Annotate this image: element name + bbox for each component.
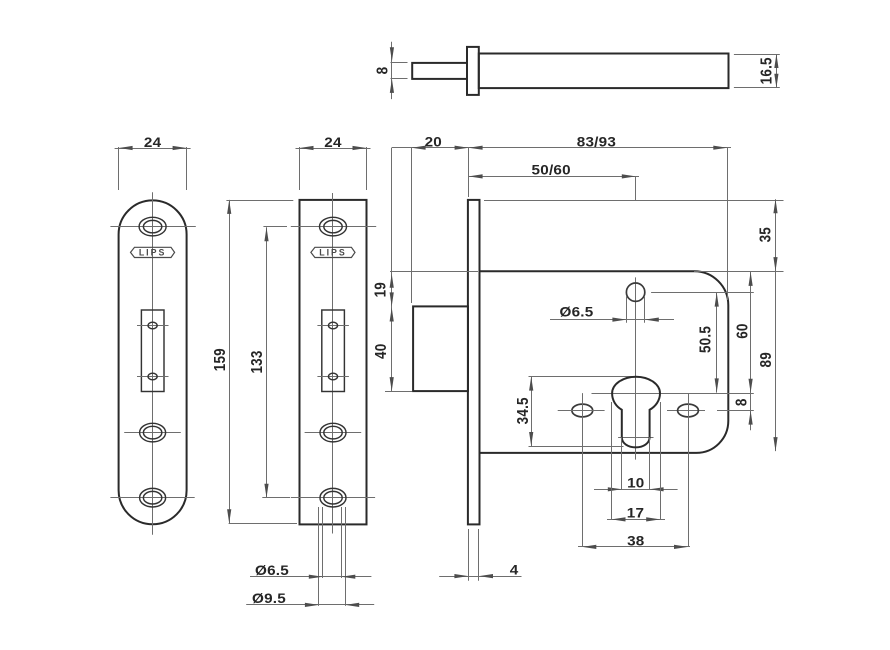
svg-text:8: 8 bbox=[734, 398, 751, 406]
svg-text:50.5: 50.5 bbox=[698, 326, 715, 353]
svg-text:10: 10 bbox=[627, 476, 644, 491]
svg-text:50/60: 50/60 bbox=[532, 163, 571, 178]
svg-text:35: 35 bbox=[758, 227, 775, 242]
svg-text:19: 19 bbox=[373, 282, 390, 297]
svg-text:24: 24 bbox=[144, 136, 161, 151]
svg-text:159: 159 bbox=[212, 348, 229, 371]
svg-text:40: 40 bbox=[373, 344, 390, 359]
svg-text:Ø6.5: Ø6.5 bbox=[255, 564, 289, 579]
svg-text:8: 8 bbox=[375, 67, 392, 75]
svg-text:LIPS: LIPS bbox=[319, 247, 347, 257]
svg-text:4: 4 bbox=[510, 563, 519, 578]
svg-text:20: 20 bbox=[425, 135, 442, 150]
svg-text:38: 38 bbox=[627, 534, 644, 549]
svg-text:133: 133 bbox=[249, 350, 266, 373]
svg-text:24: 24 bbox=[324, 136, 341, 151]
svg-text:16.5: 16.5 bbox=[759, 57, 776, 84]
svg-text:34.5: 34.5 bbox=[515, 397, 532, 424]
svg-text:60: 60 bbox=[735, 323, 752, 338]
svg-text:89: 89 bbox=[758, 352, 775, 367]
svg-text:17: 17 bbox=[627, 506, 644, 521]
svg-text:Ø6.5: Ø6.5 bbox=[560, 305, 594, 320]
svg-text:Ø9.5: Ø9.5 bbox=[252, 592, 286, 607]
svg-text:83/93: 83/93 bbox=[577, 135, 616, 150]
svg-text:LIPS: LIPS bbox=[139, 247, 167, 257]
